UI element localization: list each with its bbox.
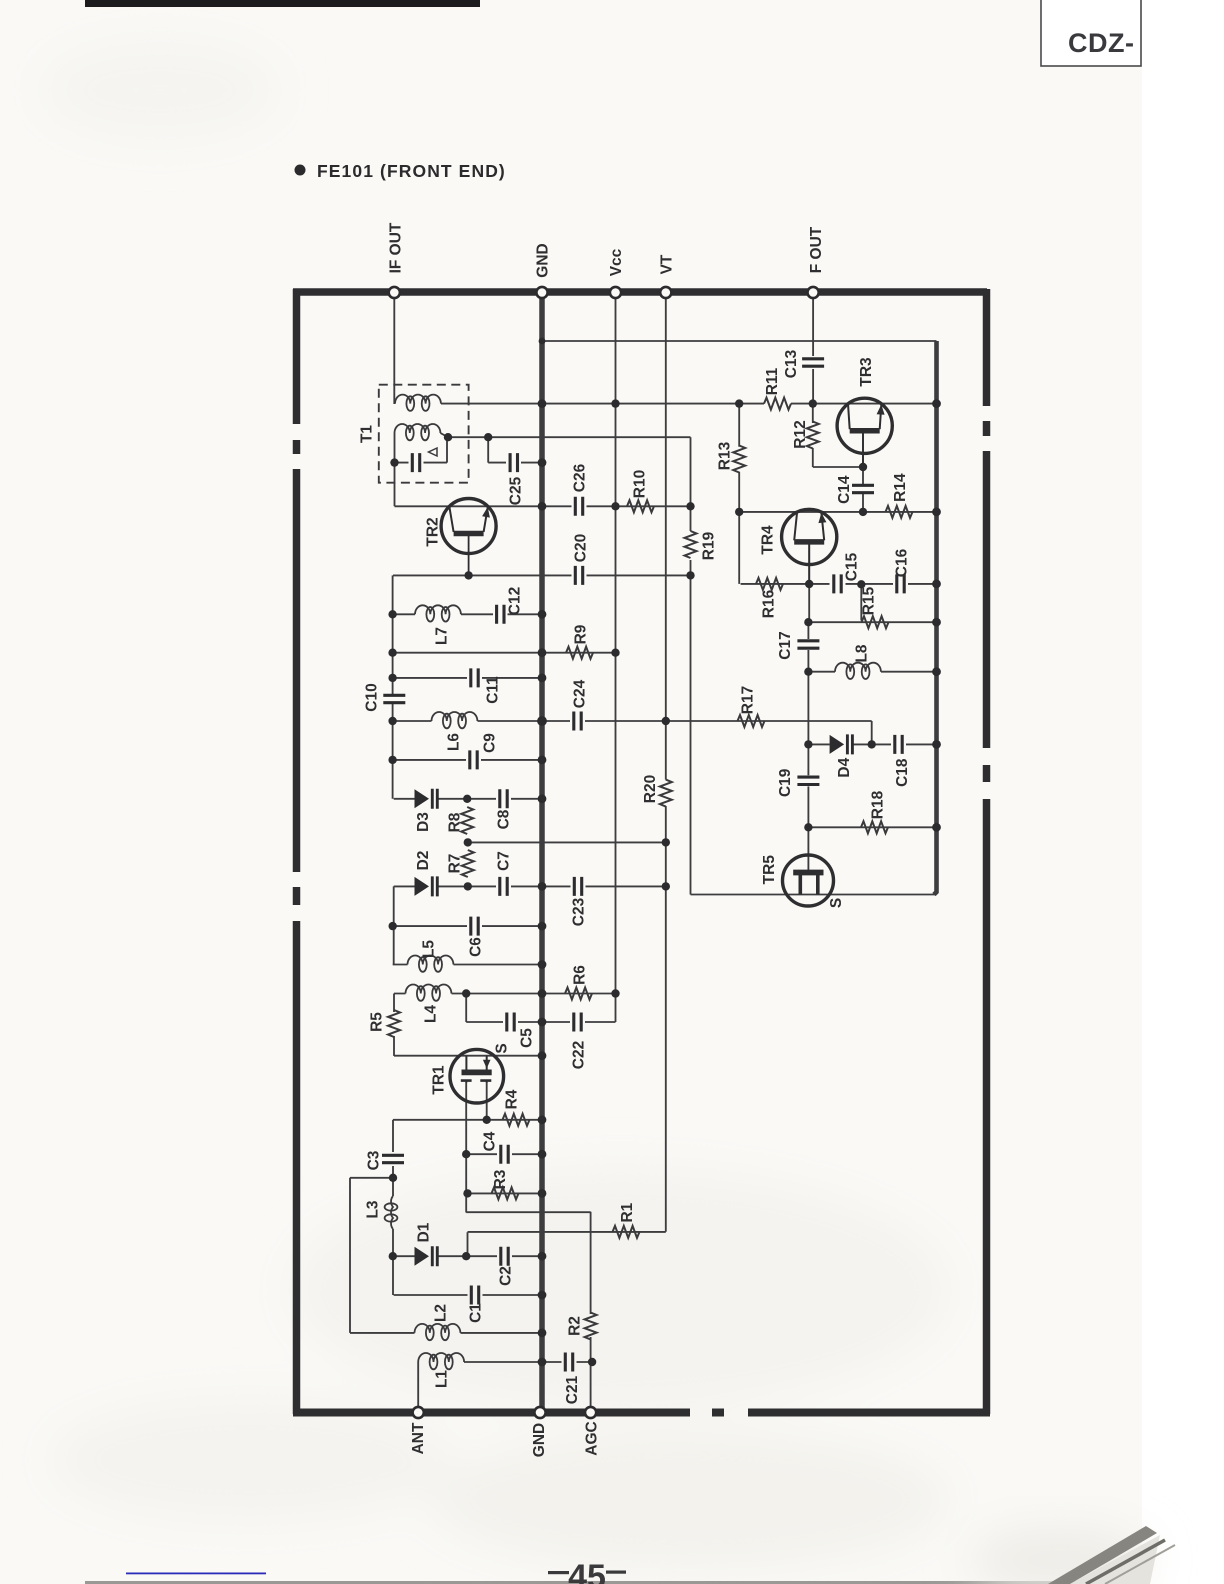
svg-text:R16: R16 [761, 589, 778, 618]
wire left column upper (C10 in series) [392, 575, 394, 694]
svg-text:C25: C25 [508, 476, 525, 505]
capacitor C12 [497, 605, 504, 624]
shield border bottom (dashed) [293, 1409, 990, 1417]
svg-text:45: 45 [568, 1558, 606, 1584]
svg-text:TR4: TR4 [760, 525, 777, 555]
svg-text:C24: C24 [572, 679, 589, 708]
svg-text:L2: L2 [433, 1304, 450, 1322]
resistor R6 [565, 988, 592, 1000]
terminal GND top [536, 287, 547, 298]
capacitor C1 [471, 1286, 478, 1305]
inductor L3 vertical [385, 1196, 398, 1229]
transistor TR4 [782, 509, 837, 584]
svg-text:C26: C26 [572, 463, 589, 492]
svg-text:D3: D3 [415, 812, 432, 832]
wire R1 row to VT [468, 1231, 666, 1233]
resistor R15 [862, 616, 889, 628]
svg-text:R20: R20 [642, 775, 659, 803]
transistor TR5 (FET) [783, 855, 834, 906]
svg-text:R12: R12 [792, 420, 809, 448]
shield border top [293, 288, 987, 296]
svg-text:C22: C22 [571, 1041, 588, 1069]
svg-text:C4: C4 [482, 1131, 499, 1151]
wire C4 row [466, 1153, 542, 1155]
wire R16 C15 C16 row [741, 583, 937, 585]
capacitor C24 [574, 712, 581, 731]
svg-text:C15: C15 [844, 552, 861, 581]
wire R4 row [393, 1119, 542, 1121]
svg-text:C1: C1 [468, 1303, 485, 1323]
capacitor C17 [797, 641, 819, 648]
resistor R19 [685, 531, 697, 558]
svg-text:F OUT: F OUT [808, 226, 825, 273]
capacitor C3 [382, 1155, 404, 1162]
shield border left (dashed) [293, 289, 301, 1414]
node dots on R19 rail [686, 502, 694, 510]
wire GND bus [539, 296, 545, 1409]
wire VT rail upper [665, 297, 667, 780]
svg-text:L8: L8 [853, 644, 870, 662]
capacitor C13 [802, 359, 824, 366]
wire C9 row [393, 759, 542, 761]
capacitor C4 [501, 1145, 508, 1164]
wire F OUT rail [812, 297, 814, 356]
title FE101 (FRONT END) [295, 161, 506, 181]
resistor R9 [566, 647, 593, 659]
wire TR3 emitter column to C14 [862, 433, 864, 484]
inductor L4 [406, 985, 452, 1001]
svg-text:VT: VT [658, 254, 675, 274]
wire C15-R15 connector [860, 584, 862, 620]
capacitor C22 [574, 1013, 581, 1032]
svg-text:TR1: TR1 [431, 1065, 448, 1095]
wire L2 row [350, 1332, 542, 1334]
wire C25 branch [488, 437, 542, 462]
node dots on GND bus [539, 338, 546, 345]
svg-text:C16: C16 [894, 548, 911, 577]
terminal AGC [585, 1407, 596, 1418]
svg-text:C20: C20 [573, 534, 590, 562]
capacitor C2 [501, 1247, 508, 1266]
resistor R3 [492, 1187, 519, 1199]
wire R15 row [808, 621, 936, 623]
svg-text:L4: L4 [423, 1005, 440, 1023]
wire R9 row [393, 652, 616, 654]
svg-text:ANT: ANT [410, 1422, 427, 1454]
svg-text:C2: C2 [498, 1266, 515, 1286]
svg-text:L7: L7 [434, 627, 451, 645]
wire R12 to TR3 link [813, 466, 863, 468]
svg-text:L1: L1 [434, 1370, 451, 1388]
capacitor C7 [500, 877, 507, 896]
capacitor C20 [575, 566, 582, 585]
inductor L5 [408, 956, 454, 972]
wire L4 R6 row [394, 993, 616, 995]
resistor R8 [461, 807, 473, 834]
wire R3 row [468, 1192, 543, 1194]
svg-text:C9: C9 [482, 733, 499, 753]
wire TR1 top row [394, 1055, 542, 1057]
svg-text:R18: R18 [870, 790, 887, 819]
capacitor C23 [574, 877, 581, 896]
resistor R11 [764, 398, 791, 410]
resistor R7 [462, 850, 474, 877]
capacitor C11 [471, 668, 478, 687]
capacitor C25 [510, 453, 517, 472]
capacitor C6 [471, 917, 478, 936]
wire TR1 gate2 short column [486, 1082, 488, 1120]
capacitor C10 [383, 695, 405, 702]
svg-text:R10: R10 [632, 470, 649, 498]
CDZ- model box top right [1041, 0, 1141, 66]
wire Vcc rail [615, 297, 617, 1022]
svg-text:R17: R17 [740, 686, 757, 714]
resistor R5 [388, 1010, 400, 1037]
svg-text:R4: R4 [504, 1089, 521, 1109]
svg-text:C17: C17 [777, 631, 794, 659]
svg-text:D1: D1 [416, 1222, 433, 1242]
wire R12 column [812, 404, 814, 423]
node dots mid columns [464, 571, 472, 579]
wire L4 right end to C5 [465, 994, 467, 1023]
resistor R14 [886, 506, 913, 518]
varactor D1 [415, 1246, 438, 1266]
varactor D3 [415, 789, 438, 809]
capacitor C15 [834, 574, 841, 593]
svg-text:FE101 (FRONT END): FE101 (FRONT END) [317, 161, 506, 181]
node dots T1 area [390, 458, 398, 466]
varactor D2 [415, 876, 438, 896]
svg-text:C10: C10 [364, 683, 381, 711]
resistor R2 [585, 1313, 597, 1340]
wire TR4 top row / R14 [739, 511, 936, 513]
wire C17/C19 column down to TR5 [807, 622, 809, 639]
varactor D4 [830, 734, 853, 754]
svg-text:R7: R7 [447, 854, 464, 874]
wire C25 to R19 to TR5 gate rail [690, 437, 692, 531]
transistor TR1 (dual gate FET) [450, 1049, 504, 1103]
svg-text:C21: C21 [564, 1375, 581, 1404]
svg-text:R11: R11 [764, 367, 781, 395]
resistor R10 [627, 500, 654, 512]
inductor L1 [418, 1353, 464, 1369]
wire TR4 emitter column [808, 540, 810, 622]
svg-text:C13: C13 [783, 349, 800, 378]
terminal IF OUT [389, 287, 400, 298]
wire R18 row [808, 826, 936, 828]
wire L8 row [808, 671, 936, 673]
node dot R2 top of C21 [588, 1358, 596, 1366]
svg-text:R13: R13 [717, 441, 734, 470]
resistor R12 [807, 422, 819, 449]
svg-text:R1: R1 [619, 1202, 636, 1222]
svg-text:GND: GND [531, 1423, 548, 1457]
svg-text:R14: R14 [892, 473, 909, 502]
svg-text:AGC: AGC [584, 1421, 601, 1455]
inductor L6 [432, 712, 478, 728]
svg-text:TR3: TR3 [858, 357, 875, 387]
wire TR2 base / C20 row [393, 574, 691, 576]
capacitor T1 trimmer [395, 437, 448, 462]
capacitor C16 [897, 574, 904, 593]
bottom scan edge [85, 1581, 1105, 1584]
wire left column mid [393, 886, 395, 964]
wire inner ground bus (thick) [934, 341, 937, 895]
capacitor C26 [575, 497, 582, 516]
wire TR5 gate/source row [691, 894, 937, 896]
inductor L7 [415, 605, 461, 621]
capacitor C8 [500, 789, 507, 808]
svg-text:R6: R6 [572, 965, 589, 985]
node dots on Vcc rail [611, 399, 619, 407]
wire VT rail lower [665, 806, 667, 1232]
page number -45- [548, 1558, 626, 1584]
wire branch column x350 [349, 1178, 351, 1333]
top black bar [85, 0, 480, 7]
svg-text:R5: R5 [369, 1012, 386, 1032]
terminal F OUT [808, 287, 819, 298]
resistor R17 [738, 715, 765, 727]
capacitor C21 [565, 1353, 572, 1372]
svg-text:C8: C8 [496, 809, 513, 829]
wire L7 C12 row [393, 613, 542, 615]
svg-text:R9: R9 [573, 624, 590, 644]
wire D1 riser [467, 1232, 469, 1256]
svg-text:S: S [828, 898, 845, 908]
svg-text:C23: C23 [571, 897, 588, 926]
wire R2-AGC column [590, 1212, 592, 1314]
inductor T1 primary [395, 395, 441, 411]
svg-text:C18: C18 [894, 758, 911, 787]
resistor R20 [660, 780, 672, 807]
node dots right section [735, 399, 743, 407]
svg-text:S: S [494, 1043, 511, 1053]
svg-text:D2: D2 [415, 851, 432, 871]
resistor R16 [756, 578, 783, 590]
svg-text:TR5: TR5 [761, 855, 778, 885]
svg-text:IF OUT: IF OUT [388, 222, 405, 273]
wire IF OUT rail [393, 297, 395, 404]
terminal Vcc [610, 287, 621, 298]
svg-text:CDZ-: CDZ- [1068, 28, 1134, 58]
svg-text:R3: R3 [492, 1169, 509, 1189]
blue pen line bottom left [126, 1573, 266, 1575]
svg-text:GND: GND [535, 243, 552, 277]
wire TR2 row / C26-R10 row [395, 505, 691, 507]
wire D3 C8 row [394, 798, 542, 800]
wire C6 row [393, 925, 542, 927]
page curl bottom right [970, 1495, 1224, 1584]
resistor R18 [861, 821, 888, 833]
svg-text:C6: C6 [468, 937, 485, 957]
wire inner box top rail [542, 340, 937, 342]
terminal ANT [413, 1407, 424, 1418]
wire T1 secondary out [448, 436, 691, 438]
svg-text:TR2: TR2 [425, 517, 442, 546]
svg-text:C7: C7 [496, 851, 513, 871]
resistor R4 [503, 1114, 530, 1126]
wire D1 C2 row [393, 1255, 542, 1257]
wire L4-R5 column [393, 994, 395, 1013]
wire C5 C22 row [466, 1021, 615, 1023]
capacitor C19 [797, 777, 819, 784]
transistor TR3 [837, 398, 892, 467]
wire C1 row [394, 1294, 542, 1296]
svg-text:C14: C14 [836, 475, 853, 504]
svg-text:R15: R15 [861, 586, 878, 615]
svg-text:T1: T1 [359, 425, 376, 443]
transformer T1 dashed box [379, 385, 469, 483]
svg-text:C12: C12 [507, 587, 524, 615]
capacitor C18 [895, 735, 902, 754]
svg-text:R8: R8 [447, 812, 464, 832]
terminal VT [660, 287, 671, 298]
capacitor C14 [852, 485, 874, 492]
wire L5 row [393, 964, 542, 966]
wire TR1 out to R2 column [466, 1211, 590, 1213]
resistor R13 [733, 446, 745, 473]
svg-text:L6: L6 [446, 733, 463, 751]
wire R17 corner riser [871, 721, 873, 744]
node dots on left column [388, 610, 396, 618]
svg-text:L5: L5 [421, 940, 438, 958]
wire C11 row [393, 677, 542, 679]
inductor L2 [415, 1324, 461, 1340]
svg-text:R2: R2 [567, 1316, 584, 1336]
transistor TR2 [441, 499, 496, 576]
node dots on VT rail [662, 717, 670, 725]
svg-text:Vcc: Vcc [608, 248, 625, 276]
svg-text:L3: L3 [365, 1200, 382, 1218]
svg-text:C5: C5 [519, 1028, 536, 1048]
capacitor C9 [470, 750, 477, 769]
svg-text:C19: C19 [777, 768, 794, 797]
wire TR1 gate1 column [465, 1082, 467, 1213]
wire R8 mid to VT [468, 841, 666, 843]
resistor R1 [613, 1226, 640, 1238]
wire T1 secondary left / TR2 collector lead [394, 433, 396, 506]
wire D4 C18 row [808, 743, 936, 745]
wire T1 primary to inner bus (through TR3) [441, 403, 937, 405]
terminal GND bottom [534, 1407, 545, 1418]
shield border right (dashed) [983, 289, 991, 1414]
inductor L8 [835, 663, 881, 679]
svg-text:D4: D4 [836, 757, 853, 777]
wire L1 C21 row [418, 1362, 592, 1408]
svg-text:C3: C3 [366, 1150, 383, 1170]
wire R13 column [738, 404, 740, 447]
svg-text:R19: R19 [701, 531, 718, 560]
svg-text:C11: C11 [485, 676, 502, 704]
wire left column lower (C3, L3 in series) [392, 1120, 394, 1152]
inductor T1 secondary [395, 424, 441, 440]
capacitor C5 [507, 1013, 514, 1032]
wire L6 C24 R17 row [393, 720, 872, 722]
wire D2 C7 C23 row [394, 885, 665, 887]
